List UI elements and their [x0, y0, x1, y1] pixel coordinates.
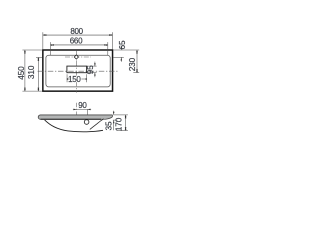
svg-text:660: 660 [70, 36, 83, 45]
svg-text:150: 150 [68, 75, 81, 84]
svg-text:65: 65 [117, 40, 127, 49]
svg-text:90: 90 [78, 101, 87, 110]
svg-text:800: 800 [70, 27, 83, 36]
svg-text:310: 310 [26, 65, 36, 79]
svg-text:170: 170 [114, 117, 124, 131]
svg-text:95: 95 [85, 65, 95, 74]
svg-text:35: 35 [104, 121, 114, 130]
svg-text:450: 450 [16, 66, 26, 80]
svg-text:230: 230 [127, 57, 137, 71]
